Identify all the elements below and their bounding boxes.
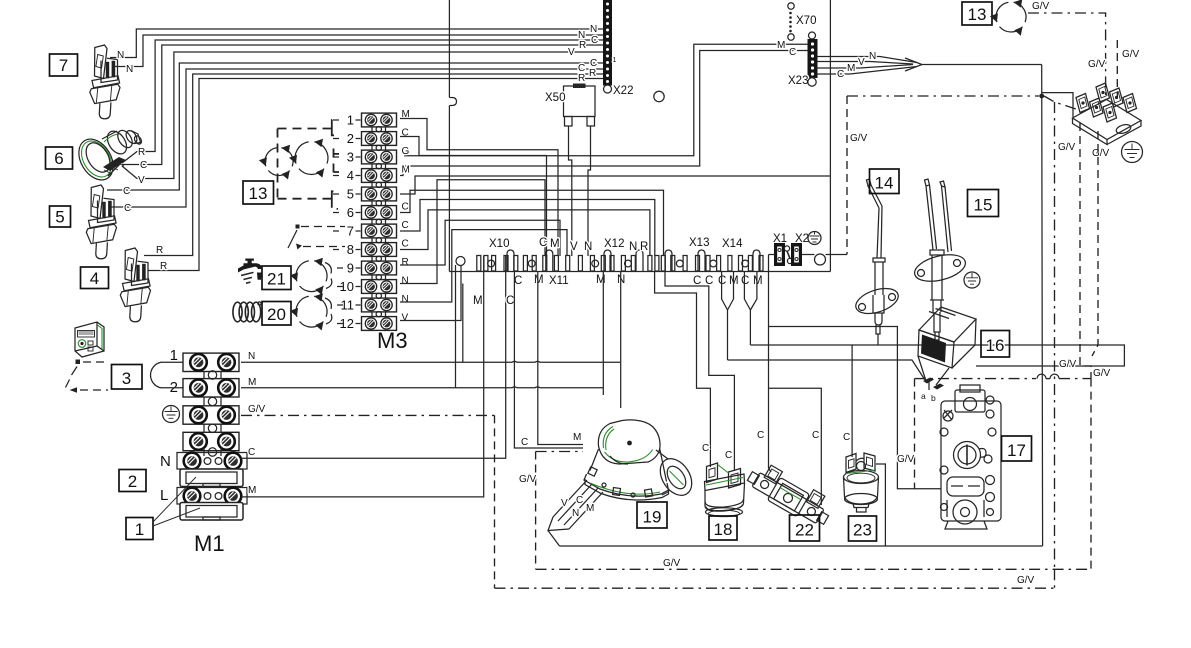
pump bottom flange band: [584, 474, 669, 496]
G/V diagonal to front-left tab: [1044, 96, 1079, 110]
wire electrode 14 down: [877, 334, 879, 345]
svg-text:7: 7: [347, 224, 354, 239]
wire M3-7 C to X13 pin: [400, 200, 655, 257]
svg-text:2: 2: [347, 131, 354, 146]
wire pin M to pump connector: [538, 272, 583, 445]
connector X50: [545, 84, 595, 127]
svg-text:19: 19: [643, 508, 662, 527]
wire sensor6 C: [122, 45, 604, 165]
box 13 (top right): [962, 2, 992, 25]
box 21 (DHW request) + tap icon: [262, 266, 291, 290]
wire 22 lower tab: [769, 388, 822, 505]
wire loop right to transformer b: [852, 345, 1124, 366]
motor symbol 20: [290, 293, 332, 330]
leader lines from box 1 to fuses: [153, 477, 200, 526]
box 7: [50, 54, 78, 76]
svg-text:23: 23: [853, 521, 872, 540]
wire M3-1 M to pin: [400, 119, 558, 257]
wire sensor6 R: [122, 40, 604, 163]
PCB bottom edge: [449, 271, 830, 273]
wire through X1 X2: [769, 254, 848, 256]
svg-text:X13: X13: [689, 237, 709, 249]
svg-text:C: C: [591, 35, 598, 46]
PCB hole right: [815, 254, 826, 265]
motor symbol left of M3 rows 1-6: [259, 145, 293, 180]
svg-text:X22: X22: [613, 85, 633, 97]
box 1: [126, 518, 153, 540]
G/V dashed drops from block tabs: [1080, 123, 1091, 379]
box 5: [50, 206, 71, 227]
wire merged pair to transformer: [722, 272, 734, 361]
svg-text:9: 9: [347, 261, 354, 276]
box 2: [119, 470, 146, 492]
svg-text:15: 15: [974, 196, 993, 215]
pump body: [584, 420, 698, 501]
svg-text:V: V: [561, 498, 568, 509]
labels below pins: [514, 274, 763, 287]
svg-text:M: M: [586, 503, 594, 514]
svg-text:G/V: G/V: [897, 454, 915, 465]
svg-text:G/V: G/V: [850, 133, 868, 144]
box 6: [46, 147, 73, 169]
svg-text:V: V: [568, 47, 575, 58]
svg-text:16: 16: [986, 336, 1005, 355]
svg-text:C: C: [140, 160, 147, 171]
pump cable conduit with wires V C N M: [548, 480, 603, 546]
svg-text:C: C: [402, 239, 409, 250]
G/V drop from pump to inner bus: [535, 452, 537, 570]
svg-text:X11: X11: [549, 275, 569, 287]
wire X1 down to 22 upper tab: [769, 255, 772, 473]
box 4: [81, 267, 109, 289]
motor symbol top right: [990, 0, 1026, 36]
svg-text:C: C: [123, 186, 130, 197]
svg-text:N: N: [248, 351, 255, 362]
switch to M3 7-8: [288, 225, 345, 250]
dashed box around 13 motors: [278, 120, 340, 209]
G/V dash-dot vertical: [1054, 102, 1056, 569]
svg-text:X23: X23: [788, 75, 808, 87]
svg-text:5: 5: [55, 208, 64, 227]
svg-text:3: 3: [122, 369, 131, 388]
svg-text:X12: X12: [604, 238, 624, 250]
wire merged pair to 23 left: [744, 272, 757, 346]
G/V dash-dot across to right: [915, 378, 1037, 380]
svg-text:N: N: [584, 241, 592, 253]
svg-text:M: M: [753, 275, 763, 287]
wire M1-L row M up to pin: [241, 256, 484, 497]
tap icon: [238, 259, 263, 284]
svg-text:G/V: G/V: [1032, 1, 1050, 12]
svg-text:C: C: [402, 202, 409, 213]
svg-text:C: C: [521, 437, 528, 448]
wire M3-9 R up to pin: [400, 220, 560, 265]
svg-text:C: C: [705, 275, 713, 287]
wire M3-10 branch down to M1 N line: [462, 284, 464, 363]
svg-text:21: 21: [267, 270, 286, 289]
svg-text:1: 1: [347, 113, 354, 128]
fuse link X1-X2: [784, 246, 792, 264]
wire sensor4 R: [144, 74, 604, 256]
motor symbol 21: [290, 258, 332, 295]
svg-text:R: R: [578, 73, 585, 84]
earth symbol at 15: [964, 272, 980, 288]
wire M3-9 branch down to M1 M line: [455, 265, 457, 388]
G/V dash-dot horizontal y96: [847, 95, 1039, 97]
svg-text:C: C: [702, 443, 709, 454]
svg-text:20: 20: [267, 305, 286, 324]
svg-text:M: M: [402, 165, 410, 176]
terminal strip M3: [333, 109, 410, 331]
wire sensor4 R (2): [148, 79, 604, 271]
svg-text:C: C: [124, 203, 131, 214]
svg-text:G/V: G/V: [1017, 575, 1035, 586]
svg-text:M1: M1: [194, 531, 225, 556]
G/V dash-dot from motor to earth block: [1028, 13, 1106, 95]
G/V link between buses: [1054, 569, 1056, 588]
svg-text:b: b: [931, 393, 936, 403]
svg-text:6: 6: [54, 149, 63, 168]
svg-text:V: V: [570, 241, 578, 253]
svg-text:N: N: [629, 241, 637, 253]
svg-text:V: V: [138, 175, 145, 186]
svg-text:G/V: G/V: [1058, 142, 1076, 153]
svg-text:X10: X10: [489, 238, 509, 250]
PCB mounting circle top: [654, 91, 664, 101]
svg-text:G/V: G/V: [1093, 368, 1111, 379]
svg-text:G: G: [402, 146, 410, 157]
wire sensor7 N (2): [114, 35, 604, 67]
svg-text:C: C: [506, 295, 514, 307]
svg-text:X14: X14: [722, 238, 743, 250]
svg-text:C: C: [539, 237, 547, 249]
svg-text:C: C: [741, 275, 749, 287]
G/V dashed at valve: [914, 379, 916, 489]
svg-text:M: M: [248, 485, 256, 496]
svg-text:R: R: [160, 261, 167, 272]
svg-text:1: 1: [135, 520, 144, 539]
terminal strip M1: [177, 353, 247, 520]
svg-text:C: C: [843, 432, 850, 443]
svg-text:X50: X50: [545, 92, 565, 104]
svg-text:1: 1: [613, 57, 617, 64]
box 18: [709, 516, 737, 540]
svg-text:M: M: [573, 432, 581, 443]
svg-text:G/V: G/V: [1088, 59, 1106, 70]
PCB mounting hole left: [456, 257, 465, 266]
svg-text:13: 13: [249, 184, 268, 203]
G/V dashed vertical to X2: [846, 96, 848, 255]
svg-text:G/V: G/V: [663, 558, 681, 569]
svg-text:R: R: [138, 147, 145, 158]
svg-text:M: M: [473, 295, 483, 307]
G/V drop to bottom bus: [494, 415, 496, 588]
svg-text:G/V: G/V: [248, 404, 266, 415]
svg-text:G/V: G/V: [1059, 359, 1077, 370]
connector X22: [604, 0, 634, 97]
svg-text:V: V: [402, 313, 409, 324]
svg-text:R: R: [402, 257, 409, 268]
svg-text:5: 5: [347, 187, 354, 202]
wire M3-12 V up to PCB edge: [400, 266, 461, 321]
inner G/V bus: [536, 568, 1091, 570]
svg-text:N: N: [117, 50, 124, 61]
connector labels above pins: [489, 233, 809, 253]
loop link rows 1-2 (room thermostat): [151, 362, 183, 388]
svg-text:R: R: [589, 68, 596, 79]
svg-text:C: C: [789, 47, 796, 58]
sensor 6 (water pressure transducer): [72, 128, 143, 186]
svg-text:R: R: [640, 241, 648, 253]
svg-text:M3: M3: [377, 328, 408, 353]
PCB right edge: [829, 0, 831, 272]
svg-text:13: 13: [968, 5, 987, 24]
pump right flange: [654, 453, 698, 501]
svg-text:G/V: G/V: [1092, 148, 1110, 159]
svg-text:V: V: [858, 57, 865, 68]
box 16: [981, 331, 1010, 358]
svg-text:R: R: [579, 40, 586, 51]
svg-text:M: M: [550, 238, 560, 250]
fuse X1: [775, 244, 785, 266]
earth symbol at block: [1122, 142, 1143, 163]
pump return wire to thermostat 23: [560, 545, 1043, 547]
sensor 4 (return NTC probe): [120, 248, 150, 322]
coil icon: [233, 302, 261, 322]
outer G/V bus: [495, 587, 1055, 589]
PCB left edge with connector bump: [449, 0, 456, 272]
wire X23 C from M3-4: [400, 51, 808, 176]
controller / clock unit: [75, 322, 104, 357]
svg-text:C: C: [514, 275, 522, 287]
box 23: [849, 516, 877, 541]
svg-text:M: M: [248, 377, 256, 388]
svg-text:G/V: G/V: [1122, 49, 1140, 60]
svg-text:M: M: [534, 274, 544, 286]
svg-text:C: C: [402, 220, 409, 231]
sensor 5 (DHW NTC probe): [86, 185, 116, 259]
svg-text:22: 22: [795, 521, 814, 540]
wire pin M down to pump: [602, 272, 604, 396]
wire valve top to dashed earth: [928, 379, 930, 390]
sensor 7 (flow NTC probe): [90, 45, 120, 119]
svg-text:3: 3: [347, 150, 354, 165]
box 17: [1002, 436, 1032, 461]
svg-text:X70: X70: [796, 15, 816, 27]
wire M1-2 M to pin M: [241, 386, 603, 389]
wire pin N down to pump: [620, 272, 622, 409]
wire sensor5 C (2): [111, 69, 604, 207]
wire M1-earth G/V: [241, 414, 495, 416]
wire M3-11 N up to pin: [400, 230, 567, 302]
wire branch to thermostat 23 right: [876, 464, 885, 546]
fuse X2: [792, 244, 802, 266]
svg-text:R: R: [156, 245, 163, 256]
svg-text:C: C: [725, 450, 732, 461]
earth symbol at M1: [163, 406, 180, 423]
svg-text:N: N: [572, 508, 579, 519]
wire X50 feet to pins V N: [569, 126, 591, 256]
wire M3-8 C to X13 pin: [400, 210, 650, 256]
wire M3-5 to PCB right: [400, 176, 830, 194]
svg-text:6: 6: [347, 205, 354, 220]
wire labels near X22: [568, 24, 598, 84]
wire sensor6 V: [122, 52, 604, 179]
wire M1-1 N to pin N (hops over pump drops): [241, 360, 621, 363]
svg-text:N: N: [590, 24, 597, 35]
main earth distribution vertical: [1041, 65, 1044, 547]
G/V dashed right vertical to bottom: [1090, 379, 1092, 570]
box 3: [112, 365, 143, 390]
wire M3-10 N up to pin: [400, 180, 545, 284]
svg-text:N: N: [402, 294, 409, 305]
box 15: [968, 190, 999, 217]
connector X23: [788, 32, 817, 87]
svg-text:C: C: [693, 275, 701, 287]
svg-text:G/V: G/V: [519, 474, 537, 485]
earth faston block: [1073, 83, 1142, 145]
svg-text:2: 2: [128, 472, 137, 491]
wire M3-6 C to X13 pin: [400, 190, 664, 256]
svg-text:N: N: [869, 51, 876, 62]
wire M1-N row C up to pin: [241, 256, 506, 458]
wire G/V to pump: [536, 451, 583, 453]
svg-text:C: C: [757, 430, 764, 441]
svg-text:17: 17: [1007, 441, 1026, 460]
box 20 (heating request) + radiator coil icon: [262, 302, 291, 326]
svg-text:N: N: [160, 453, 171, 470]
svg-text:4: 4: [90, 269, 99, 288]
svg-text:N: N: [402, 276, 409, 287]
wire pin to 18 left: [655, 272, 711, 468]
box 22: [790, 515, 820, 541]
svg-text:18: 18: [714, 520, 733, 539]
wire X23 M from M3-3: [404, 44, 808, 156]
svg-text:1: 1: [170, 347, 178, 364]
wire sensor7 N: [110, 29, 604, 58]
room thermostat switch (dashed): [66, 360, 109, 393]
box 14: [870, 169, 900, 194]
wire M3-2 C to pin: [400, 137, 547, 257]
wire pin C to pump connector: [514, 272, 583, 449]
connector X70 dots: [788, 3, 817, 40]
svg-text:L: L: [160, 487, 168, 504]
svg-text:a: a: [921, 391, 926, 401]
svg-text:8: 8: [347, 242, 354, 257]
svg-text:7: 7: [59, 56, 68, 75]
wire pin to 18 right: [665, 272, 734, 472]
svg-text:4: 4: [347, 168, 354, 183]
svg-text:M: M: [596, 274, 606, 286]
svg-text:N: N: [126, 64, 133, 75]
svg-text:C: C: [576, 495, 583, 506]
box 13 (left, zone valves option): [243, 181, 274, 204]
X23 output cable bundle with arrow: [817, 51, 1042, 80]
wire staircase X1 branch to valve bottom: [769, 327, 942, 489]
svg-text:M: M: [847, 63, 855, 74]
wire sensor5 C: [107, 63, 604, 190]
pin row: [477, 250, 763, 271]
earth symbol at X2: [808, 232, 821, 245]
svg-text:C: C: [812, 430, 819, 441]
svg-text:C: C: [837, 69, 844, 80]
box 19: [637, 502, 667, 528]
svg-text:14: 14: [875, 174, 894, 193]
svg-text:C: C: [248, 447, 255, 458]
svg-text:M: M: [777, 40, 785, 51]
